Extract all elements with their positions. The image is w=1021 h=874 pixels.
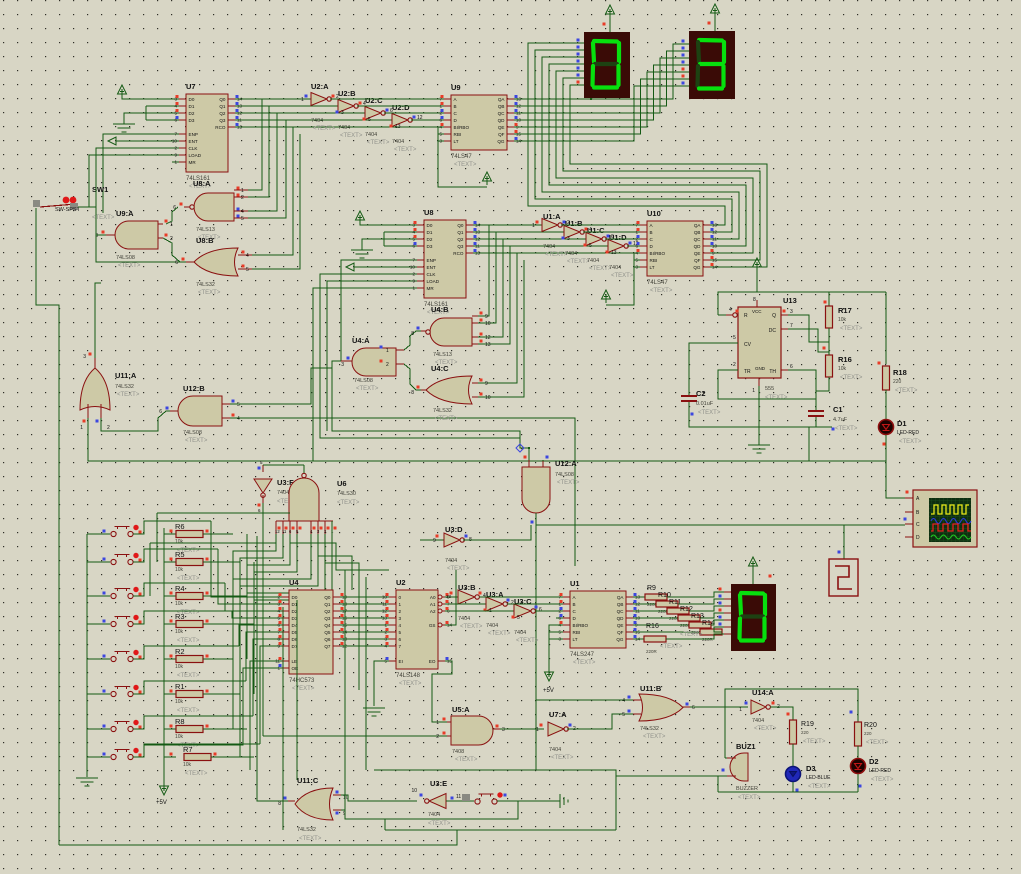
svg-text:220: 220 (801, 730, 809, 735)
svg-text:LT: LT (573, 637, 578, 642)
svg-text:74LS08: 74LS08 (183, 430, 202, 436)
LED D1 red (885, 390, 887, 419)
wire resistor R1 right (203, 693, 240, 695)
svg-text:<TEXT>: <TEXT> (765, 395, 788, 401)
svg-text:<TEXT>: <TEXT> (394, 147, 417, 153)
svg-text:7: 7 (790, 323, 793, 329)
counter U7 74LS161 (186, 94, 228, 172)
svg-text:13: 13 (611, 250, 617, 256)
svg-text:QA: QA (617, 595, 625, 600)
wire U14:A out to R19 (770, 707, 793, 720)
inverter U14:A 7404 (751, 700, 766, 714)
svg-text:7404: 7404 (549, 747, 561, 753)
svg-text:220: 220 (864, 731, 872, 736)
svg-text:CV: CV (744, 342, 752, 348)
svg-text:U2:D: U2:D (392, 103, 410, 112)
svg-text:RCO: RCO (453, 251, 464, 256)
svg-text:<TEXT>: <TEXT> (643, 734, 666, 740)
wire U1 BI/RBI/LT tie to +5V (549, 625, 563, 668)
svg-text:0.01uF: 0.01uF (696, 401, 714, 407)
wire matrix columns to U4 data pins (211, 521, 282, 597)
bottom rail y830 (385, 829, 616, 831)
power flag VCC (display right) (714, 8, 716, 17)
wire D3 to bottom rail (792, 782, 794, 792)
svg-text:<TEXT>: <TEXT> (866, 740, 889, 746)
svg-text:74LS32: 74LS32 (196, 282, 215, 288)
inverter U1:A 7404 (542, 219, 558, 232)
svg-text:3: 3 (341, 110, 344, 116)
svg-text:R16: R16 (838, 355, 852, 364)
wire step extra row3 (150, 542, 276, 544)
svg-text:U13: U13 (783, 296, 797, 305)
wire U2 A2 row (445, 610, 514, 612)
svg-text:3: 3 (83, 354, 86, 360)
decoder U9 74LS47 (451, 95, 507, 150)
LED D2 red (857, 746, 859, 758)
wire LED bottom rail (718, 791, 858, 793)
svg-text:R19: R19 (801, 721, 814, 728)
svg-text:U4:A: U4:A (352, 336, 370, 345)
svg-text:SW-SPST: SW-SPST (55, 207, 81, 213)
svg-text:R14: R14 (702, 620, 715, 627)
resistor R14 220R (633, 631, 700, 633)
svg-text:7404: 7404 (565, 251, 577, 257)
svg-text:VCC: VCC (752, 309, 762, 314)
svg-text:<TEXT>: <TEXT> (340, 133, 363, 139)
svg-text:7404: 7404 (338, 125, 350, 131)
svg-text:U9:A: U9:A (116, 209, 134, 218)
wire switch to ground (497, 800, 560, 802)
or U4:C 74LS32 (mirrored) (426, 376, 472, 404)
wire U8 ENP (341, 260, 417, 361)
svg-text:ENT: ENT (427, 265, 436, 270)
wire resistor R8 right (203, 728, 247, 730)
svg-text:13: 13 (395, 124, 401, 130)
svg-text:7404: 7404 (277, 490, 289, 496)
svg-text:+5V: +5V (543, 688, 554, 694)
svg-text:QG: QG (616, 637, 624, 642)
svg-text:1: 1 (412, 286, 415, 291)
nand U6 74LS30 (rot up, output top) (289, 478, 319, 521)
svg-text:12: 12 (485, 335, 491, 341)
7-segment display bottom (0) (731, 584, 776, 651)
svg-text:QB: QB (694, 230, 701, 235)
svg-text:QF: QF (617, 630, 624, 635)
svg-text:2: 2 (174, 146, 177, 151)
svg-text:12: 12 (275, 529, 280, 534)
junction diamond (516, 444, 524, 452)
power flag VCC (U13) (756, 262, 758, 271)
wire staircase drop A (344, 570, 346, 819)
svg-text:3: 3 (399, 616, 402, 621)
svg-text:10k: 10k (838, 366, 847, 372)
svg-text:Q: Q (772, 313, 776, 319)
wire U8 Q0 row (473, 224, 542, 226)
svg-text:1: 1 (241, 188, 244, 194)
svg-text:74LS30: 74LS30 (337, 491, 356, 497)
wire U13 reset to rail (718, 314, 726, 316)
svg-text:6: 6 (692, 705, 695, 711)
svg-text:Q3: Q3 (324, 616, 331, 621)
svg-text:QF: QF (498, 132, 505, 137)
svg-text:2: 2 (733, 362, 736, 368)
svg-text:R8: R8 (175, 717, 185, 726)
svg-text:6: 6 (159, 409, 162, 415)
svg-text:<TEXT>: <TEXT> (299, 836, 322, 842)
svg-text:Q0: Q0 (457, 223, 464, 228)
svg-text:LED-RED: LED-RED (869, 768, 891, 774)
svg-text:EO: EO (429, 659, 436, 664)
svg-text:<TEXT>: <TEXT> (573, 660, 596, 666)
wire U3:D row (420, 539, 444, 541)
wire U4:A in2 diag to U4:C out (404, 364, 421, 390)
LED D3 blue (792, 744, 794, 766)
svg-text:QC: QC (498, 111, 506, 116)
svg-text:D0: D0 (189, 97, 195, 102)
svg-text:D2: D2 (427, 237, 433, 242)
svg-text:RBI: RBI (650, 258, 658, 263)
svg-text:9: 9 (412, 279, 415, 284)
svg-text:4: 4 (237, 416, 240, 422)
svg-text:<TEXT>: <TEXT> (118, 263, 141, 269)
inverter U2:A 7404 (311, 93, 327, 106)
svg-text:11: 11 (456, 794, 461, 800)
svg-text:0: 0 (399, 595, 402, 600)
svg-text:9: 9 (174, 153, 177, 158)
wire LOAD (89, 155, 179, 207)
wire U4 Q rows to U2 (340, 596, 389, 598)
svg-text:<TEXT>: <TEXT> (840, 375, 863, 381)
svg-text:<TEXT>: <TEXT> (356, 386, 379, 392)
svg-text:3: 3 (567, 236, 570, 242)
svg-text:4: 4 (622, 698, 625, 704)
inverter U2:D 7404 (392, 114, 408, 127)
wire resistor R5 right (203, 561, 240, 563)
svg-text:R5: R5 (175, 550, 185, 559)
svg-text:10k: 10k (175, 539, 184, 545)
svg-text:7404: 7404 (486, 623, 498, 629)
svg-text:B: B (573, 602, 576, 607)
switch (reset) (446, 800, 474, 802)
svg-text:1: 1 (170, 222, 173, 228)
svg-text:QG: QG (497, 139, 505, 144)
svg-text:10: 10 (172, 139, 178, 144)
svg-text:U12:B: U12:B (183, 384, 205, 393)
wire resistor R6 right (203, 533, 233, 535)
svg-text:R13: R13 (691, 613, 704, 620)
svg-text:<TEXT>: <TEXT> (447, 566, 470, 572)
svg-text:7404: 7404 (365, 132, 377, 138)
wire U11:C pin9 to rail (341, 801, 518, 819)
svg-text:3: 3 (790, 309, 793, 315)
svg-text:5: 5 (237, 402, 240, 408)
wire scope C run (536, 524, 905, 526)
svg-text:10: 10 (411, 788, 417, 794)
wire U4:A out to column (332, 361, 529, 448)
wire SW1 left down (36, 208, 59, 845)
or U11:A 74LS32 (rot up) (80, 368, 110, 410)
ground (reset switch, rotated) (559, 794, 561, 808)
svg-text:<TEXT>: <TEXT> (399, 681, 422, 687)
svg-text:U3:C: U3:C (514, 597, 532, 606)
svg-text:10k: 10k (183, 762, 192, 768)
svg-text:R18: R18 (893, 368, 907, 377)
svg-text:U10: U10 (647, 209, 661, 218)
decoder U10 74LS47 (647, 221, 703, 276)
bottom rail y845 (59, 830, 457, 845)
svg-text:QA: QA (694, 223, 702, 228)
svg-text:<TEXT>: <TEXT> (337, 500, 360, 506)
svg-text:1: 1 (80, 425, 83, 431)
wire resistor R2 right (203, 658, 233, 660)
svg-text:U2:B: U2:B (338, 89, 356, 98)
inverter U3:C 7404 (514, 604, 531, 618)
wire SW1 right to nets (78, 206, 96, 208)
wire U8 RCO row to U10 BI (473, 252, 640, 254)
svg-text:555: 555 (765, 386, 774, 392)
wire U9:A in2 diag to U8:B out (163, 238, 186, 262)
svg-text:LOAD: LOAD (189, 153, 202, 158)
svg-text:9: 9 (485, 314, 488, 320)
svg-text:D3: D3 (189, 118, 195, 123)
svg-text:U1:B: U1:B (565, 219, 583, 228)
svg-text:1: 1 (399, 602, 402, 607)
svg-text:R1: R1 (175, 682, 185, 691)
svg-text:74LS32: 74LS32 (297, 827, 316, 833)
svg-text:U11:B: U11:B (640, 684, 662, 693)
wire U5:A in2 row (263, 735, 447, 737)
wire U2 A0 row (445, 596, 458, 598)
svg-text:1: 1 (386, 348, 389, 354)
wire U2 GS up (445, 570, 456, 625)
svg-text:11: 11 (282, 529, 287, 534)
svg-text:MR: MR (189, 160, 197, 165)
svg-text:R12: R12 (680, 606, 693, 613)
svg-text:4: 4 (246, 253, 249, 259)
svg-text:QE: QE (617, 623, 624, 628)
svg-text:U1:C: U1:C (587, 226, 605, 235)
svg-text:<TEXT>: <TEXT> (92, 215, 115, 221)
svg-text:ENT: ENT (189, 139, 198, 144)
svg-text:7404: 7404 (458, 616, 470, 622)
svg-text:8: 8 (753, 297, 756, 303)
svg-text:220R: 220R (646, 649, 658, 654)
svg-text:74LS13: 74LS13 (433, 352, 452, 358)
svg-text:5: 5 (517, 615, 520, 621)
wire U8 D1-D3 tie (384, 231, 417, 233)
svg-text:<TEXT>: <TEXT> (177, 638, 200, 644)
wire U11:B out to frame (690, 706, 748, 708)
svg-text:U1:D: U1:D (609, 233, 627, 242)
svg-text:74LS08: 74LS08 (555, 472, 574, 478)
inverter U3:E 7404 (mirrored) (429, 794, 446, 809)
svg-text:10k: 10k (175, 629, 184, 635)
svg-text:D1: D1 (427, 230, 433, 235)
svg-text:R17: R17 (838, 306, 852, 315)
switch row R4 (87, 595, 110, 597)
wire U8:A out diag to U9:A in1 (166, 207, 178, 224)
svg-text:7404: 7404 (752, 718, 764, 724)
svg-text:10: 10 (410, 265, 416, 270)
svg-text:R4: R4 (175, 584, 185, 593)
power flag +5V (resistor rail) (163, 782, 165, 791)
svg-text:LT: LT (454, 139, 459, 144)
svg-text:D0: D0 (427, 223, 433, 228)
svg-text:D1: D1 (897, 419, 907, 428)
svg-text:LE: LE (292, 659, 298, 664)
wire U11:A in2 to U12:B out (101, 411, 170, 431)
svg-text:QB: QB (498, 104, 505, 109)
wire U6 input web (233, 534, 276, 596)
svg-text:U3:A: U3:A (486, 590, 504, 599)
svg-text:<TEXT>: <TEXT> (650, 288, 673, 294)
svg-text:RBI: RBI (454, 132, 462, 137)
wire buzzer bottom rail to left (616, 776, 727, 830)
svg-text:QC: QC (617, 609, 625, 614)
svg-text:7404: 7404 (587, 258, 599, 264)
wire U6 staircase to U2 (290, 536, 389, 570)
capacitor C1 (808, 410, 824, 412)
svg-text:BI/RBO: BI/RBO (454, 125, 470, 130)
wire U4:A in1 diag to U4:B out (404, 331, 421, 350)
7-segment display left (0) (584, 32, 630, 98)
svg-text:74LS32: 74LS32 (640, 726, 659, 732)
power flag VCC (display bottom) (752, 561, 754, 570)
svg-text:2: 2 (412, 272, 415, 277)
svg-text:D3: D3 (427, 244, 433, 249)
svg-text:7408: 7408 (452, 749, 464, 755)
svg-text:LT: LT (650, 265, 655, 270)
switch SW1 (33, 200, 40, 207)
inverter U3:A 7404 (486, 597, 503, 611)
power flag VCC (U10) (605, 294, 607, 303)
resistor R3 10k (164, 623, 176, 625)
inverter U3:F 7404 (rot down) (254, 479, 272, 493)
wire U3:F input loop to U6 out (263, 464, 304, 466)
power flag VCC (U7) (121, 89, 123, 98)
wire U2:D out to U9 (411, 119, 444, 121)
svg-text:<TEXT>: <TEXT> (738, 795, 761, 801)
svg-text:1: 1 (536, 727, 539, 733)
wire U2 A1 row (445, 603, 486, 605)
wire RCO row (235, 126, 444, 128)
svg-text:74HC573: 74HC573 (289, 678, 315, 684)
wire U9:A out to SW1 net (96, 234, 106, 236)
wire U1 outs to U10 inputs (561, 224, 640, 226)
svg-text:74LS32: 74LS32 (115, 384, 134, 390)
wire MR (172, 161, 179, 163)
svg-text:74LS47: 74LS47 (647, 280, 668, 286)
svg-text:U11:C: U11:C (297, 776, 319, 785)
svg-text:A2: A2 (430, 609, 436, 614)
switch row R3 (87, 623, 110, 625)
counter U8 74LS161 (424, 220, 466, 298)
svg-text:5: 5 (368, 117, 371, 123)
svg-text:10k: 10k (175, 664, 184, 670)
wire U4 OE left (144, 668, 282, 745)
wires resistors to display bottom (667, 592, 724, 597)
svg-text:D2: D2 (869, 757, 879, 766)
wire switch R5 step (133, 549, 218, 562)
wire matrix deep column A (282, 607, 284, 830)
svg-text:TR: TR (744, 369, 751, 375)
svg-text:QE: QE (694, 251, 701, 256)
resistor R17 (828, 292, 830, 306)
svg-text:MR: MR (427, 286, 435, 291)
svg-text:U5:A: U5:A (452, 705, 470, 714)
svg-text:U8: U8 (424, 208, 434, 217)
svg-text:U12:A: U12:A (555, 459, 577, 468)
svg-text:U3:E: U3:E (430, 779, 447, 788)
svg-text:74LS08: 74LS08 (116, 255, 135, 261)
resistor R1 10k (164, 693, 176, 695)
svg-text:5: 5 (733, 335, 736, 341)
latch U4 74HC573 (289, 590, 333, 674)
svg-text:<TEXT>: <TEXT> (198, 290, 221, 296)
resistor R12 220R (633, 617, 678, 619)
and U5:A 7408 (451, 716, 493, 745)
svg-text:DC: DC (769, 328, 777, 334)
svg-text:U8:B: U8:B (196, 236, 214, 245)
and U12:A 74LS08 (rot down) (522, 467, 550, 513)
wire U12:B pin5 row (230, 368, 332, 404)
svg-text:R3: R3 (175, 612, 185, 621)
svg-text:<TEXT>: <TEXT> (177, 576, 200, 582)
svg-text:TH: TH (769, 369, 776, 375)
inverter U1:C 7404 (586, 233, 602, 246)
svg-text:Q7: Q7 (324, 644, 331, 649)
svg-text:U1:A: U1:A (543, 212, 561, 221)
svg-text:1: 1 (739, 707, 742, 713)
svg-text:U2: U2 (396, 578, 406, 587)
wire resistor R7 right (211, 756, 254, 758)
or U11:B 74LS32 (639, 694, 683, 721)
svg-text:R6: R6 (175, 522, 185, 531)
svg-text:D2: D2 (189, 111, 195, 116)
svg-text:QD: QD (617, 616, 625, 621)
svg-text:1: 1 (752, 388, 755, 394)
svg-text:10k: 10k (175, 734, 184, 740)
wire U8 MR (313, 288, 417, 461)
svg-text:7404: 7404 (543, 244, 555, 250)
svg-text:CLK: CLK (427, 272, 437, 277)
svg-text:Q2: Q2 (219, 111, 226, 116)
ground (U13) (748, 444, 770, 446)
svg-text:2: 2 (241, 195, 244, 201)
svg-text:QB: QB (617, 602, 624, 607)
wire Q1 row (235, 105, 338, 107)
power flag +5V (U1) (548, 668, 550, 677)
wire switch R2 step (133, 646, 239, 659)
wire U9 BI/RBI/LT tie to VCC (438, 127, 487, 187)
svg-text:5: 5 (246, 267, 249, 273)
inverter U3:B 7404 (458, 590, 475, 604)
svg-text:D: D (916, 535, 920, 541)
or U11:C 74LS32 (mirrored) (295, 788, 333, 820)
wire +5V column (163, 528, 165, 782)
svg-text:U4: U4 (289, 578, 299, 587)
wire U7:A out to U11:B in5 (567, 714, 633, 729)
wire CLK (96, 148, 184, 262)
resistor R19 220 (790, 720, 797, 744)
svg-text:LED-BLUE: LED-BLUE (806, 775, 831, 781)
svg-text:R: R (744, 313, 748, 319)
wire U3 outs to U1 inputs (479, 596, 563, 598)
svg-text:7: 7 (399, 644, 402, 649)
svg-text:<TEXT>: <TEXT> (754, 726, 777, 732)
svg-text:<TEXT>: <TEXT> (895, 388, 918, 394)
svg-text:<TEXT>: <TEXT> (840, 326, 863, 332)
